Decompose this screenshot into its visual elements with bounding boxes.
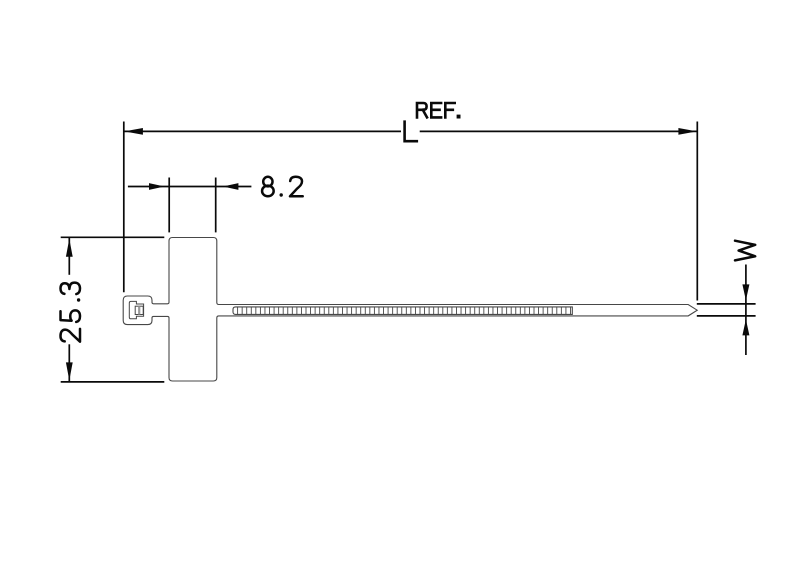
dimension W : upper arrowhead pointing down xyxy=(742,284,749,300)
dimension 25.3 : top arrowhead xyxy=(66,239,73,257)
serrated tooth band on strap xyxy=(233,307,572,315)
dimension 8.2 : right extension line xyxy=(215,178,217,233)
dimension W : dimension line (continuous) xyxy=(745,265,747,356)
dimension L REF. : right extension line xyxy=(696,122,698,301)
dimension W : top extension line (strap top edge) xyxy=(697,303,756,305)
text L (dimension value) xyxy=(405,122,417,142)
dimension L REF. : dimension line segments xyxy=(124,130,401,132)
dimension 8.2 : right arrowhead pointing left xyxy=(223,183,239,190)
text 8.2 xyxy=(262,177,274,197)
dimension L REF. : left extension line xyxy=(123,122,125,293)
dimension 8.2 : left arrowhead pointing right xyxy=(149,183,165,190)
dimension W : bottom extension line (strap bottom edge) xyxy=(697,315,756,317)
dimension 25.3 : bottom extension line xyxy=(61,381,165,383)
text 25.3 (rotated) xyxy=(61,329,81,342)
dimension 8.2 : left extension line xyxy=(168,178,170,233)
text W (rotated) xyxy=(735,241,755,261)
locking pawl detail inside head xyxy=(129,301,143,318)
dimension 8.2 : dimension line xyxy=(128,186,251,188)
dimension L REF. : left arrowhead xyxy=(124,128,142,135)
text REF. above dimension line xyxy=(417,103,427,117)
dimension W : lower arrowhead pointing up xyxy=(742,319,749,335)
dimension 25.3 : dimension line segments xyxy=(68,238,70,275)
cable tie body outline (head, flag plate, strap with pointed tip) xyxy=(123,238,697,382)
dimension L REF. : right arrowhead xyxy=(678,128,697,135)
dimension 25.3 : bottom arrowhead xyxy=(66,362,73,380)
serration teeth lines xyxy=(238,307,571,315)
dimension 25.3 : top extension line xyxy=(61,236,165,238)
